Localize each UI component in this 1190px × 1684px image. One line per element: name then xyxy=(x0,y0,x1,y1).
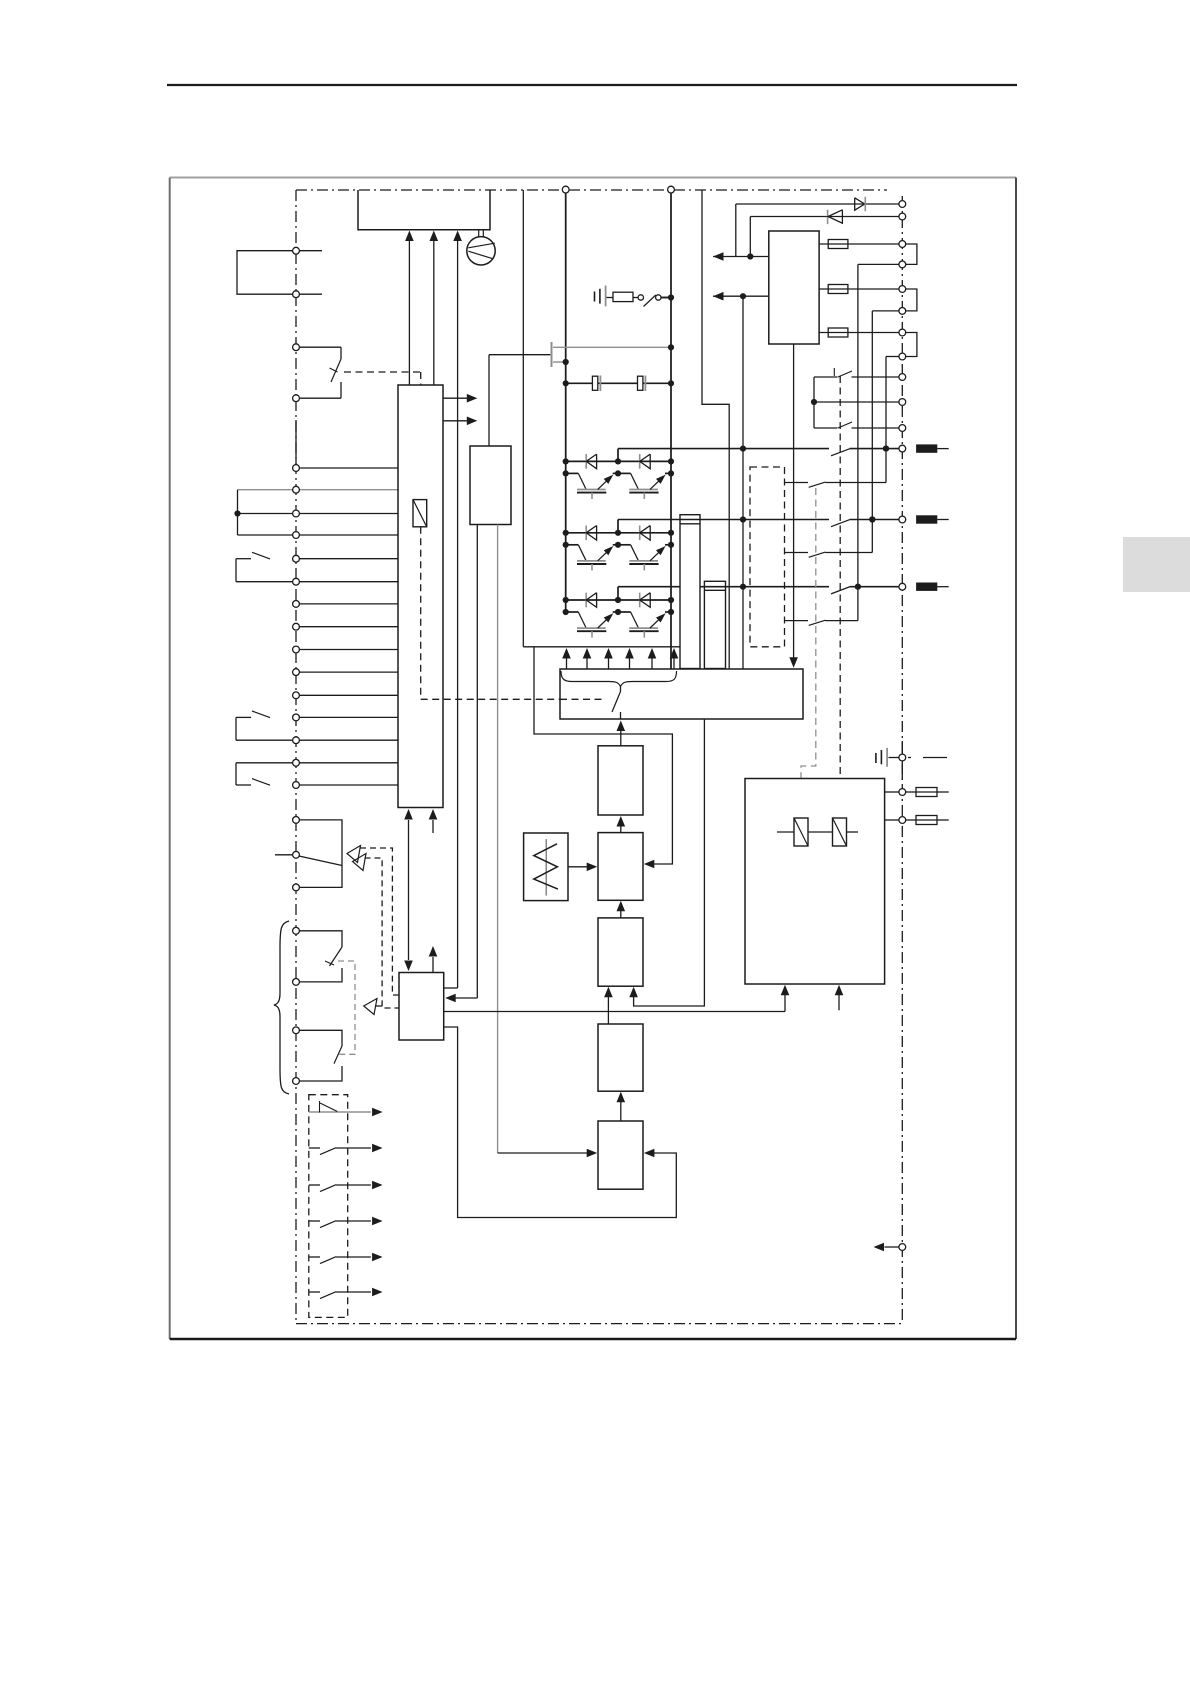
terminal DC D xyxy=(668,186,675,193)
freewheel diode V3 xyxy=(585,526,587,541)
contact S11 row xyxy=(814,427,838,429)
terminal X1.2 xyxy=(293,291,300,298)
box U2 control board xyxy=(398,385,443,808)
safe-stop dashed inside gate unit xyxy=(560,698,602,700)
terminal X4.1 xyxy=(293,486,300,493)
wire U3 gray down to U13 xyxy=(497,525,499,1154)
terminal X21.5 xyxy=(899,329,906,336)
terminal X8.1 xyxy=(293,759,300,766)
gate pulse arrow 4 xyxy=(629,658,631,669)
box U4 gate unit xyxy=(560,669,803,719)
wire U10 to U11 xyxy=(444,1011,785,1013)
arrow U10 line into U11 a xyxy=(784,995,786,1012)
terminal X23.1 xyxy=(899,789,906,796)
terminal X2.1 xyxy=(293,344,300,351)
relay contact row 6 xyxy=(309,1291,320,1293)
dashed tail A3 xyxy=(376,1005,382,1007)
aux vertical xyxy=(813,377,815,428)
gray dashed linkage to relay K2 xyxy=(801,488,816,818)
terminal X9.3 xyxy=(293,884,300,891)
terminal X20.1 xyxy=(899,201,906,208)
current sensor T1 xyxy=(680,515,700,669)
aux contact row V xyxy=(785,552,809,554)
terminal X11.1 xyxy=(293,1027,300,1034)
boundary dash-dot top edge xyxy=(296,189,887,191)
terminal X21.2 xyxy=(899,261,906,268)
wire relay out 1 xyxy=(885,791,899,793)
switch S3 with bracket xyxy=(236,716,251,718)
contact S10 row xyxy=(814,376,838,378)
box U8 xyxy=(598,918,643,986)
terminal X6.5 xyxy=(293,692,300,699)
DC rail left xyxy=(565,190,567,612)
switch S8 ground circuit xyxy=(638,295,643,300)
wire U12 bottom to U4 xyxy=(793,344,795,658)
wire external in xyxy=(885,1246,900,1248)
wire mid row xyxy=(814,401,899,403)
motor terminal bar V xyxy=(916,515,937,523)
terminal X21.4 xyxy=(899,308,906,315)
contact S7 xyxy=(296,1030,342,1046)
dashed linkage main contactor xyxy=(839,376,841,818)
wire X4.1 gray xyxy=(238,489,399,491)
wire digital input 3 xyxy=(296,649,398,651)
terminal X7.1 xyxy=(293,714,300,721)
dashed relay contact box xyxy=(309,1095,348,1318)
arrow U5 to U4 xyxy=(620,731,622,746)
wire fuse row 1 xyxy=(819,243,899,245)
safe-stop dashed link to relay K1 xyxy=(344,371,421,373)
power section boundary line xyxy=(522,190,524,647)
relay contact row 1 (gray wire) xyxy=(309,1111,371,1113)
box U6 modulator xyxy=(598,833,643,901)
terminal X22.2 xyxy=(899,399,906,406)
arrow path U4 to U8 xyxy=(634,719,705,1006)
wire voltage sense down xyxy=(742,296,744,669)
terminal X4.3 xyxy=(293,532,300,539)
relay K1 in U2 xyxy=(413,500,427,527)
current sensor T2 xyxy=(704,581,725,668)
terminal X9.2 xyxy=(293,851,300,858)
wire arrow U2 to U1 a xyxy=(408,241,410,385)
wire U3 down to U10 arrow xyxy=(476,525,478,999)
wire digital input 1 xyxy=(296,603,398,605)
terminal X22.1 xyxy=(899,374,906,381)
fuse F5 xyxy=(906,819,916,821)
box U1 fan supply xyxy=(358,190,490,230)
box U3 power supply xyxy=(470,446,511,525)
relay K2 in U11 xyxy=(794,818,808,846)
freewheel diode V1 xyxy=(585,454,587,469)
IGBT Q4 xyxy=(618,544,631,546)
brake chopper IGBT Q7 (gray) xyxy=(551,342,553,367)
phase W output line xyxy=(618,586,829,588)
pulse block contact S9 xyxy=(620,687,622,692)
relay wire xyxy=(777,831,794,833)
wire digital input 5 xyxy=(296,694,398,696)
terminal X21.6 xyxy=(899,353,906,360)
fuse F2 xyxy=(828,285,848,294)
arrow U6 to U5 xyxy=(620,827,622,833)
changeover contact S5 xyxy=(296,820,342,888)
wire diode line 2 xyxy=(750,216,899,218)
relay contact row 5 xyxy=(309,1256,320,1258)
boundary dash-dot right edge xyxy=(901,196,903,1324)
wire X4.3 xyxy=(238,534,399,536)
IGBT row 1 dots xyxy=(563,470,569,476)
terminal X20.2 xyxy=(899,213,906,220)
wire X4.2 to relay K1 xyxy=(238,513,399,515)
terminal X8.2 xyxy=(293,782,300,789)
wire fuse row 3 xyxy=(819,332,899,334)
gate pulse arrow 5 xyxy=(651,658,653,669)
terminal motor U xyxy=(899,445,906,452)
brace gate signals xyxy=(561,671,677,687)
dashed contactor box xyxy=(750,467,785,647)
box U10 interface xyxy=(399,973,444,1041)
terminal motor W xyxy=(899,583,906,590)
motor terminal bar U xyxy=(916,444,937,452)
brace group marker xyxy=(274,921,289,1094)
hollow arrow A2 at S5 xyxy=(353,854,367,871)
arrow U3 gray line into U13 xyxy=(498,1152,591,1154)
motor terminal bar W xyxy=(916,583,937,591)
vertical to phase V xyxy=(871,311,873,553)
phase W tap xyxy=(617,587,619,600)
terminal X1.1 xyxy=(293,247,300,254)
diode V8 xyxy=(827,210,829,224)
wire arrow U2 to U1 b xyxy=(433,241,435,385)
bracket X4 xyxy=(237,490,239,535)
diode V7 xyxy=(855,198,865,210)
dashed path A1 to U10 xyxy=(360,848,399,995)
terminal X10.2 xyxy=(293,979,300,986)
arrow U7 to U6 xyxy=(568,866,591,868)
box U5 xyxy=(598,746,643,815)
wire X3 to U2 xyxy=(296,467,398,469)
wire gate line to U6 xyxy=(534,647,672,864)
phase V output line xyxy=(618,519,829,521)
IGBT row 2 dots xyxy=(563,542,569,548)
wire fuse row 2 xyxy=(819,288,899,290)
switch S4 with bracket xyxy=(236,762,398,764)
wire to phase vertical 3 xyxy=(886,356,899,358)
page top rule xyxy=(167,84,1017,86)
terminal DC C xyxy=(562,186,569,193)
box U7 sawtooth generator xyxy=(524,833,568,901)
jumper bracket 1 xyxy=(906,244,917,264)
gate pulse arrow 3 xyxy=(608,658,610,669)
terminal X21.3 xyxy=(899,286,906,293)
terminal X11.2 xyxy=(293,1078,300,1085)
terminal X1 pair bracket xyxy=(237,251,322,295)
IGBT Q6 xyxy=(618,611,631,613)
freewheel diode V5 xyxy=(585,593,587,608)
arrow U8 to U6 xyxy=(620,911,622,918)
wire relay out 2 xyxy=(885,819,899,821)
dashed path A2 to U10 xyxy=(365,858,400,1008)
wire U12 left out 2 xyxy=(713,295,769,297)
relay K3 in U11 xyxy=(833,818,847,846)
ground symbol E1 xyxy=(594,292,596,302)
outer frame xyxy=(170,177,1016,179)
terminal X6.3 xyxy=(293,646,300,653)
box U12 aux supply xyxy=(769,231,819,344)
IGBT Q1 xyxy=(566,472,579,474)
terminal X5.1 xyxy=(293,555,300,562)
diode row 2 line xyxy=(566,532,671,534)
contact S6 with linkage tick xyxy=(296,931,342,947)
freewheel diode V4 xyxy=(639,526,641,541)
wire digital input 2 xyxy=(296,626,398,628)
switch S1 contact xyxy=(296,346,341,348)
phase U tap xyxy=(617,449,619,462)
IGBT Q2 xyxy=(618,472,631,474)
phase V tap xyxy=(617,520,619,533)
IGBT row 3 dots xyxy=(563,609,569,615)
wire diode line 1 xyxy=(736,203,899,205)
box U11 terminal expansion xyxy=(745,779,885,985)
wire loop U10 to U13 xyxy=(444,1027,677,1218)
diode row 3 line xyxy=(566,599,671,601)
fuse F1 xyxy=(828,240,848,249)
resistor R1 ground circuit xyxy=(607,297,614,299)
fan M1 xyxy=(478,230,480,237)
freewheel diode V2 xyxy=(639,454,641,469)
terminal X6.1 xyxy=(293,601,300,608)
gate pulse arrow 1 xyxy=(566,658,568,669)
double arrow U2-U10 xyxy=(408,820,410,960)
safe-stop dashed relay K1 to pulse block xyxy=(420,527,422,700)
box U9 xyxy=(598,1024,643,1091)
freewheel diode V6 xyxy=(639,593,641,608)
terminal X2.2 xyxy=(293,395,300,402)
ground symbol PE xyxy=(875,753,877,763)
terminal X21.1 xyxy=(899,241,906,248)
IGBT Q3 xyxy=(566,544,579,546)
terminal X6.2 xyxy=(293,623,300,630)
terminal X4.2 xyxy=(293,510,300,517)
wire to phase vertical 2 xyxy=(872,310,899,312)
fuse F3 xyxy=(828,328,848,337)
vertical to phase W xyxy=(857,264,859,620)
aux contact row W xyxy=(785,620,809,622)
terminal X3 xyxy=(293,465,300,472)
DC rail right xyxy=(670,190,672,669)
wire digital input 4 xyxy=(296,671,398,673)
jumper bracket 2 xyxy=(906,289,917,311)
arrow U9 to U8 a xyxy=(607,997,609,1024)
terminal X10.1 xyxy=(293,927,300,934)
terminal X5.2 xyxy=(293,578,300,585)
wire U12 left out 1 xyxy=(713,256,769,258)
DC link capacitors C1 C2 xyxy=(566,382,671,384)
relay contact row 2 xyxy=(309,1147,320,1149)
relay contact row 3 xyxy=(309,1184,320,1186)
arrow U10 line into U11 b xyxy=(838,995,840,1010)
hollow arrow A3 at S6 xyxy=(364,999,377,1015)
gate pulse arrow 2 xyxy=(586,658,588,669)
gate pulse arrow 6 xyxy=(673,658,675,669)
boundary dash-dot left edge xyxy=(295,190,297,1324)
boundary dash-dot PE stub xyxy=(908,757,951,759)
wire U3 chopper gate xyxy=(488,355,490,446)
relay contact row 4 xyxy=(309,1220,320,1222)
arrow U13 to U9 xyxy=(620,1102,622,1121)
aux contact row U xyxy=(785,482,809,484)
box U13 bottom xyxy=(598,1121,643,1189)
IGBT Q5 xyxy=(566,611,579,613)
terminal X7.2 xyxy=(293,737,300,744)
arrow from U10 top xyxy=(432,957,434,973)
fuse F4 xyxy=(906,791,916,793)
terminal X9.1 xyxy=(293,817,300,824)
diode row 1 line xyxy=(566,460,671,462)
wire arrow U10 loop to U1 xyxy=(457,241,459,988)
arrow into U2 bottom xyxy=(432,820,434,833)
terminal X22.3 xyxy=(899,425,906,432)
terminal motor V xyxy=(899,516,906,523)
wire to phase vertical 1 xyxy=(858,263,899,265)
vertical to phase U xyxy=(885,357,887,483)
terminal X6.4 xyxy=(293,669,300,676)
terminal PE xyxy=(899,754,906,761)
terminal X24 xyxy=(899,1244,906,1251)
hollow arrow A1 at S5 xyxy=(347,846,361,863)
wire arrows U2 outputs right xyxy=(443,397,471,399)
boundary dash-dot bottom edge xyxy=(296,1323,902,1325)
phase U output line xyxy=(618,448,829,450)
wire DC sense from top xyxy=(702,191,729,670)
terminal X23.2 xyxy=(899,817,906,824)
gray dashed linkage S6-S7 xyxy=(337,961,355,1054)
jumper bracket 3 xyxy=(906,333,917,357)
switch S2 with bracket xyxy=(236,558,251,560)
gray page tab xyxy=(1123,537,1190,592)
wire U10 right to U1 line xyxy=(444,987,458,989)
